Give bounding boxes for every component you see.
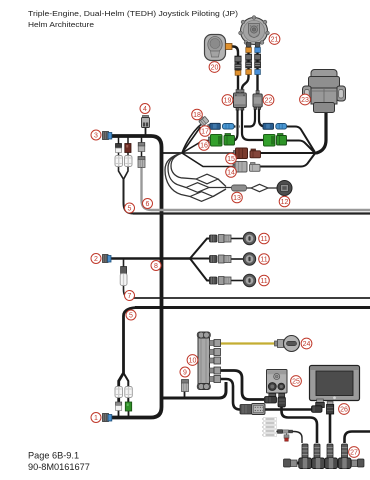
pigtail inline connectors	[278, 430, 293, 442]
connector 2 (ignition feed plug)	[103, 255, 112, 263]
Y-adapter block 22	[253, 91, 262, 110]
wire: fan to connector 18	[182, 125, 201, 154]
wire: fan stub from main harness to fan point	[162, 152, 182, 154]
connector 18 (tilted)	[198, 115, 209, 126]
key switch row 2	[210, 253, 256, 265]
wire: key switch leads	[231, 238, 246, 240]
wire: diamond 1 to converge point	[218, 179, 226, 187]
twisted pair diamond 4	[251, 184, 268, 191]
wire: CAN backbone	[287, 462, 361, 465]
cable connector stack on joystick right cable (blue bands)	[255, 48, 261, 75]
connector 6 (gray accessory connector)	[138, 157, 145, 168]
svg-text:7: 7	[128, 293, 132, 300]
callout 15	[226, 153, 237, 164]
callout 1	[91, 413, 101, 423]
svg-text:5: 5	[128, 206, 132, 213]
data link connector pair (display side, D-shape)	[252, 404, 266, 415]
svg-text:Triple-Engine, Dual-Helm (TEDH: Triple-Engine, Dual-Helm (TEDH) Joystick…	[28, 9, 238, 18]
wire: drop 3 gray lead from helm harness	[141, 137, 143, 168]
wire: right diamond to item 12	[268, 187, 278, 189]
drop connector 2 (maroon)	[125, 144, 131, 153]
callout 11 row 3	[259, 275, 270, 286]
fuse holder C (lower)	[115, 387, 123, 398]
CAN backbone left terminator	[284, 459, 298, 467]
callout 18	[192, 109, 203, 120]
svg-text:21: 21	[271, 37, 279, 44]
wire: junction box port to module 25 elbow	[221, 371, 265, 400]
svg-text:Page 6B-9.1: Page 6B-9.1	[28, 451, 79, 461]
wire: right green pair to convergence	[287, 141, 315, 153]
wire: branch to key switch row 3	[190, 259, 211, 281]
wire: item 5 upper battery run from fused leads	[124, 180, 134, 214]
svg-text:23: 23	[301, 97, 309, 104]
twisted pair diamond 3	[190, 192, 213, 202]
Y-adapter block 19	[234, 90, 247, 111]
module 25 straight connector	[278, 394, 285, 408]
fuse holder A	[115, 156, 123, 167]
wire: display 26 straight cable to CAN tee 3	[329, 413, 332, 443]
CAN tee 2	[312, 444, 325, 469]
module 25 elbow connector	[265, 394, 277, 404]
callout 16	[199, 140, 210, 151]
wire: 22 left output long lead to left blue pair (y126.5)	[234, 108, 256, 127]
junction box 10	[197, 332, 220, 390]
svg-text:12: 12	[281, 199, 289, 206]
wire: item 4 pigtail	[145, 127, 147, 136]
svg-text:10: 10	[189, 358, 197, 365]
CAN tee 3	[325, 444, 338, 469]
callout 20	[209, 62, 220, 73]
svg-text:9: 9	[183, 370, 187, 377]
svg-text:26: 26	[340, 407, 348, 414]
cable connector stack on trackpad cable	[235, 56, 241, 75]
wire: item 5 long run to second helm (white casing)	[135, 306, 370, 309]
svg-text:19: 19	[224, 98, 232, 105]
cable connector stack on joystick left cable (orange bands)	[246, 48, 252, 75]
fuse holder B	[125, 156, 133, 167]
wire: block 22 right output to right blue pair	[259, 108, 265, 127]
callout 13	[232, 192, 243, 203]
wire: fuse leads merging to single battery lead	[119, 165, 124, 183]
wire: pigtail lead to CAN tee 1	[276, 432, 302, 444]
wire: item 7 long run to second helm (white casing over harness)	[131, 297, 370, 299]
wire: drop 2 from helm harness	[127, 137, 129, 166]
wire: block 19 left output to left green pair (with white crossing casing)	[233, 108, 238, 141]
connector 9 (junction box pigtail)	[182, 380, 189, 392]
connector 1 (helm harness battery plug lower)	[103, 414, 112, 422]
svg-text:11: 11	[260, 236, 267, 243]
pigtail label stack	[262, 418, 277, 437]
twisted pair diamond 1	[196, 174, 218, 184]
callout 10	[187, 355, 198, 366]
wire: fan curl to diamond 2	[168, 153, 186, 188]
display straight connector	[327, 402, 334, 415]
display 26 (VesselView)	[310, 366, 360, 401]
junction box ports	[210, 340, 221, 383]
svg-text:5: 5	[129, 313, 133, 320]
trackpad connector (orange)	[226, 44, 233, 50]
svg-text:14: 14	[227, 170, 235, 177]
svg-text:16: 16	[200, 143, 208, 150]
callout 9	[180, 367, 190, 377]
lower drop connector white	[116, 402, 122, 411]
svg-text:1: 1	[94, 415, 98, 422]
module 25 (helm CAN module)	[267, 370, 288, 394]
svg-text:3: 3	[94, 133, 98, 140]
wire: data pair to display elbow connector	[264, 408, 314, 410]
right green pair	[264, 134, 287, 147]
callout 11 row 1	[259, 233, 270, 244]
gray pair 14	[233, 162, 260, 173]
title text	[28, 9, 238, 29]
wire: item 7 accessory lead with fuse	[124, 259, 132, 298]
callout 25	[291, 376, 302, 387]
callout 17	[200, 126, 211, 137]
svg-text:2: 2	[94, 256, 98, 263]
svg-text:90-8M0161677: 90-8M0161677	[28, 462, 90, 472]
svg-text:4: 4	[143, 106, 147, 113]
svg-text:11: 11	[260, 257, 267, 264]
joystick 21	[239, 16, 270, 47]
fuse holder D (lower)	[125, 387, 133, 398]
wire: second-helm CAN drop from right edge to tee 4	[345, 432, 370, 444]
CAN backbone right terminator	[352, 459, 365, 467]
left blue pair: helm side	[208, 123, 234, 129]
wire: item 6 gray accessory run to second helm	[142, 168, 152, 210]
wire: block 19 right output to right green pair (with white crossing casing)	[242, 108, 264, 140]
svg-text:22: 22	[265, 98, 273, 105]
callout 8	[151, 261, 161, 271]
left green pair 17/16: helm side	[209, 134, 235, 147]
twisted pair diamond 2	[186, 183, 209, 193]
callout 2	[91, 254, 101, 264]
callout 7	[125, 291, 135, 301]
display elbow connector	[312, 399, 325, 412]
key switch 11 row 1	[243, 232, 255, 244]
lower drop connector green	[125, 402, 131, 411]
svg-text:6: 6	[146, 201, 150, 208]
callout 12	[279, 196, 290, 207]
callout 21	[269, 34, 280, 45]
wire: fan to brown pair	[182, 152, 236, 154]
wire: branch to key switch row 2	[190, 258, 211, 260]
svg-text:13: 13	[233, 195, 241, 202]
key switch 11 row 2	[243, 253, 255, 265]
wire: yellow buzzer lead to item 24	[221, 342, 278, 344]
svg-text:18: 18	[193, 112, 201, 119]
drop connector 1 (black/white)	[116, 144, 122, 153]
wire: item 23 cable	[314, 112, 326, 153]
wire: brown pair to convergence	[261, 152, 316, 154]
callout 23	[300, 94, 311, 105]
callout 6	[143, 199, 153, 209]
wire: fan curl to diamond 1	[171, 153, 196, 179]
callout 5 upper	[125, 203, 135, 213]
footer text	[28, 451, 90, 473]
callout 11 row 2	[259, 254, 270, 265]
wire: item 13 to right diamond	[246, 187, 251, 189]
wire: diamond 2 to item 13	[209, 187, 232, 189]
main helm harness: item 3 across, down, to item 1	[111, 136, 162, 418]
left green pair: joystick side	[225, 134, 231, 137]
wire: ignition harness item 2 to three-way branch	[110, 257, 190, 259]
pigtail fuse tap with red cap	[286, 433, 288, 435]
CAN tee 4	[338, 444, 351, 469]
wire: fan curl to diamond 3	[165, 153, 190, 197]
svg-text:15: 15	[227, 156, 235, 163]
wire: joystick right cable into block 22	[256, 44, 258, 94]
svg-text:24: 24	[303, 341, 311, 348]
key switch row 3	[210, 274, 256, 286]
right blue pair	[263, 123, 287, 129]
svg-text:8: 8	[154, 263, 158, 270]
callout 3	[91, 130, 101, 140]
svg-text:11: 11	[260, 278, 267, 285]
wire: joystick left cable into block 19	[242, 44, 249, 93]
svg-text:20: 20	[211, 65, 219, 72]
wire: fan to left blue pair	[182, 128, 210, 154]
svg-text:17: 17	[201, 129, 209, 136]
wire: trackpad 20 cable elbow down to block 19	[232, 47, 238, 94]
connector 3 (helm harness battery plug)	[103, 132, 112, 140]
item 23 main engine harness connector	[303, 70, 346, 113]
key switch row 1: bullet connector	[210, 232, 256, 244]
left blue pair: joystick side	[223, 124, 235, 130]
wire: item 5 battery cable lower run to helm 1 connectors	[119, 308, 139, 404]
key switch 11 row 3	[243, 274, 255, 286]
wire: right blue pair to convergence of item 23 cable	[287, 127, 315, 152]
wire: fan to left green pair	[182, 141, 212, 154]
wire: harness branch to junction box bottom port	[163, 382, 226, 398]
brown pair 15	[234, 148, 261, 159]
callout 14	[226, 167, 237, 178]
wire: junction box port to data connector pair	[221, 379, 242, 410]
drop connector 3 (gray lead to item 6)	[138, 143, 145, 152]
wire: item 9 pigtail lead	[184, 391, 186, 398]
item 13 inline sleeve	[232, 185, 247, 191]
trackpad 20	[205, 35, 233, 61]
fuse holder on item 7 lead	[120, 267, 127, 286]
connector 4 (accessory relay plug)	[142, 116, 150, 128]
wire: diamond 3 to converge point	[213, 189, 226, 197]
item 24 alarm horn	[275, 336, 300, 352]
callout 19	[222, 95, 233, 106]
wire: gray pair to convergence	[260, 154, 315, 167]
callout 4	[140, 104, 150, 114]
callout 22	[263, 95, 274, 106]
callout 5 lower	[126, 310, 136, 320]
wire: fan to gray pair	[182, 153, 236, 167]
callout 26	[339, 404, 350, 415]
data link connector pair (harness side)	[240, 404, 265, 415]
svg-text:27: 27	[350, 450, 358, 457]
svg-text:25: 25	[292, 379, 300, 386]
callout 24	[301, 338, 312, 349]
CAN tee 1	[299, 444, 312, 469]
svg-text:Helm Architecture: Helm Architecture	[28, 20, 94, 29]
wire: drop 1 from helm harness	[118, 137, 120, 166]
wire: branch to key switch row 1	[190, 239, 211, 259]
wire: module 25 lower port cable to CAN tee 2	[282, 407, 318, 443]
item 12 round plug	[277, 181, 292, 196]
callout 27	[349, 447, 360, 458]
